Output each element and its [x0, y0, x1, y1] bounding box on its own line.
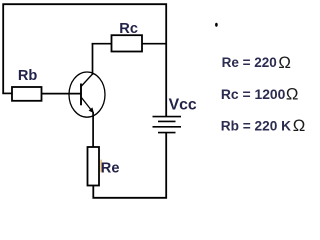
svg-text:Rb: Rb — [18, 68, 38, 84]
svg-text:Re: Re — [101, 160, 120, 176]
svg-text:Vcc: Vcc — [169, 96, 197, 113]
svg-text:Rc: Rc — [119, 21, 138, 37]
svg-text:Rc = 1200Ω: Rc = 1200Ω — [221, 85, 299, 104]
svg-text:Re = 220Ω: Re = 220Ω — [222, 53, 291, 72]
svg-text:Rb = 220 KΩ: Rb = 220 KΩ — [221, 116, 305, 135]
